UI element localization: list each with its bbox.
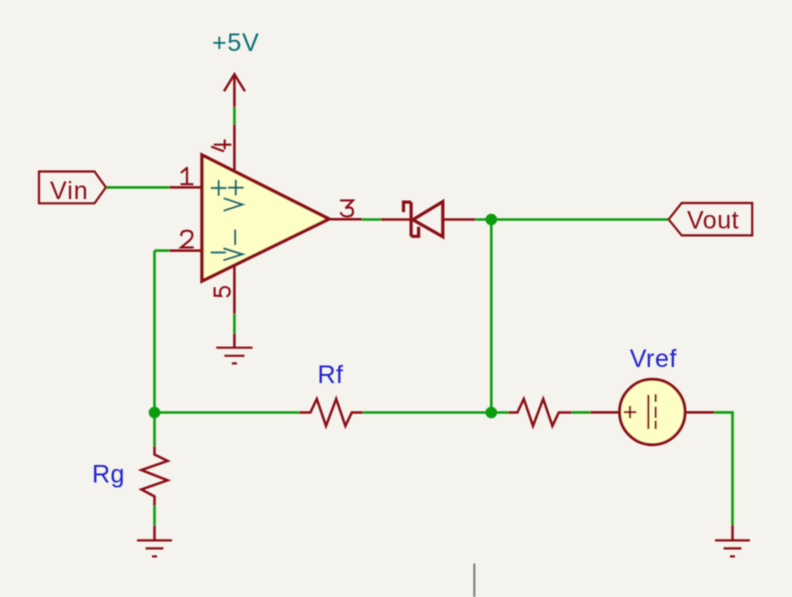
- svg-text:+5V: +5V: [212, 29, 260, 57]
- svg-text:Vin: Vin: [50, 177, 89, 205]
- svg-text:Vout: Vout: [687, 207, 739, 235]
- svg-text:Vref: Vref: [630, 345, 677, 373]
- svg-text:Rg: Rg: [92, 461, 125, 489]
- svg-text:Rf: Rf: [318, 361, 344, 389]
